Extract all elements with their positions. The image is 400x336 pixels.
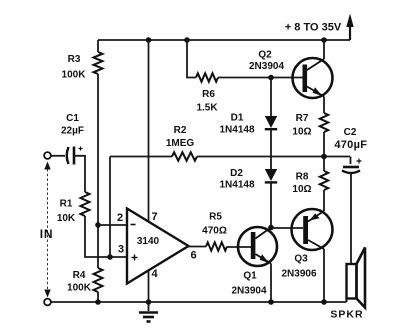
wire R4 to ground rail (97, 292, 99, 302)
svg-text:3140: 3140 (137, 236, 160, 247)
node pin2 junction (95, 222, 101, 228)
node junction rail-Q2 collector (321, 37, 327, 43)
svg-text:R7: R7 (296, 113, 309, 124)
input signal line IN (47, 169, 49, 290)
capacitor C1 22uF (67, 147, 69, 164)
svg-text:1MEG: 1MEG (166, 138, 195, 149)
svg-text:R3: R3 (68, 54, 81, 65)
diode D1 1N4148 (265, 116, 277, 128)
node pin3 junction (107, 254, 113, 260)
wire Q1 emitter to ground rail (270, 264, 272, 303)
plus input mark (132, 255, 138, 261)
svg-text:Q1: Q1 (243, 271, 257, 282)
wire feedback corner down to pin3 (109, 157, 111, 258)
node junction Q3C-rail (321, 299, 327, 305)
svg-text:470µF: 470µF (334, 139, 367, 151)
svg-text:2N3906: 2N3906 (281, 269, 316, 280)
resistor R8 (320, 171, 328, 190)
node junction rail-R6 (184, 37, 190, 43)
resistor R5 (206, 242, 227, 250)
svg-text:D2: D2 (230, 168, 243, 179)
transistor Q2 2N3904 (293, 58, 333, 98)
node junction R4-rail (95, 299, 101, 305)
svg-text:1N4148: 1N4148 (219, 125, 254, 136)
svg-text:R4: R4 (73, 270, 86, 281)
svg-text:C1: C1 (66, 113, 79, 124)
svg-text:D1: D1 (231, 113, 244, 124)
transistor Q1 2N3904 (238, 227, 277, 266)
input terminal top (44, 152, 51, 159)
node output junction (321, 154, 327, 160)
resistor R6 (196, 73, 218, 81)
power +8 TO 35V arrow (349, 25, 351, 40)
wire D2 to Q1 collector node (270, 182, 272, 227)
svg-text:R8: R8 (296, 172, 309, 183)
wire pin 6 output (189, 246, 207, 248)
resistor R2 (172, 152, 197, 160)
wire pin7 supply (148, 40, 150, 222)
wire input to C1 (51, 155, 65, 157)
wire R7 to output node (323, 132, 325, 157)
transistor Q3 2N3906 (292, 209, 333, 250)
resistor R7 (320, 113, 328, 132)
resistor R3 (94, 52, 103, 74)
svg-text:2N3904: 2N3904 (249, 61, 284, 72)
wire D1 to D2 (270, 129, 272, 169)
wire C1 to R1 (74, 156, 85, 192)
svg-text:1N4148: 1N4148 (219, 180, 254, 191)
ground symbol (148, 302, 150, 311)
wire pin 4 to ground (148, 270, 150, 302)
wire Q1 collector to Q3 base (271, 227, 303, 229)
wire R6 to Q2 base (218, 77, 303, 79)
wire top supply rail (98, 39, 350, 41)
svg-text:10K: 10K (57, 213, 76, 224)
svg-text:R5: R5 (209, 212, 222, 223)
svg-text:Q3: Q3 (294, 254, 308, 265)
wire R5 to Q1 base (227, 246, 251, 248)
wire output to C2 (350, 157, 352, 165)
node junction rail-pin7 (146, 37, 152, 43)
wire Q2 emitter to R7 (323, 97, 325, 114)
wire feedback horizontal (110, 156, 172, 158)
wire R3 to pin2 node and down to R4 (97, 74, 99, 268)
resistor R4 (94, 268, 103, 292)
svg-text:1.5K: 1.5K (196, 103, 218, 114)
svg-text:100K: 100K (62, 70, 87, 81)
svg-text:+ 8 TO 35V: + 8 TO 35V (285, 22, 342, 34)
svg-text:3: 3 (118, 244, 124, 256)
input terminal bottom (44, 299, 51, 306)
svg-text:R2: R2 (174, 125, 187, 136)
svg-text:C2: C2 (344, 127, 357, 138)
node junction pin4-rail (146, 299, 152, 305)
wire ground rail (51, 301, 347, 303)
svg-text:R1: R1 (60, 199, 73, 210)
node junction Q1C/Q3B/D2 (268, 225, 274, 231)
wire Q3 collector to ground rail (323, 249, 325, 302)
wire R8 to Q3 emitter (323, 190, 325, 211)
op-amp U1 3140 (127, 209, 189, 284)
speaker SPKR (347, 264, 357, 299)
svg-text:100K: 100K (67, 283, 92, 294)
wire C2 to speaker (350, 173, 352, 264)
svg-text:SPKR: SPKR (330, 309, 363, 321)
svg-text:10Ω: 10Ω (292, 184, 311, 195)
svg-text:2: 2 (117, 212, 123, 224)
svg-text:Q2: Q2 (258, 50, 272, 61)
wire rail down to R3 (97, 40, 99, 52)
svg-text:470Ω: 470Ω (202, 226, 227, 237)
svg-text:R6: R6 (202, 89, 215, 100)
svg-text:7: 7 (151, 211, 157, 223)
node junction Q1E-rail (268, 299, 274, 305)
minus input mark (131, 224, 136, 226)
capacitor C2 470uF (343, 166, 359, 169)
svg-text:4: 4 (151, 268, 158, 280)
wire output node to R8 (323, 157, 325, 172)
wire D1 anode (270, 78, 272, 117)
wire rail down to R6 (187, 40, 196, 78)
svg-text:2N3904: 2N3904 (231, 286, 266, 297)
wire R1 to pin 3 (85, 216, 127, 257)
svg-text:22µF: 22µF (61, 126, 84, 137)
diode D2 1N4148 (265, 169, 277, 181)
svg-text:6: 6 (190, 250, 196, 262)
wire pin 2 (98, 224, 127, 226)
svg-text:10Ω: 10Ω (292, 127, 311, 138)
node junction D1 top (268, 75, 274, 81)
wire Q2 collector to rail (323, 40, 325, 59)
wire R2 to output node (197, 156, 350, 158)
svg-text:IN: IN (40, 227, 54, 241)
resistor R1 (81, 192, 90, 216)
